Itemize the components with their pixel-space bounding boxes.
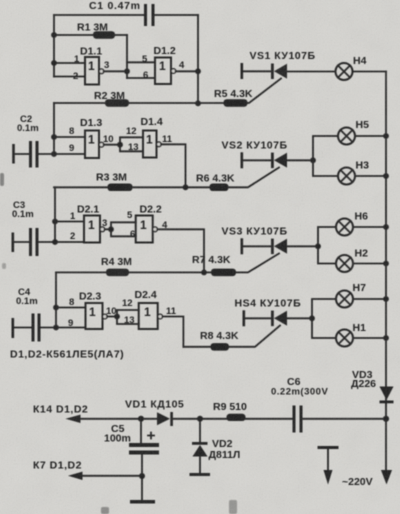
wire pin 8	[51, 126, 85, 140]
label ~220V	[342, 476, 373, 488]
node row2 output junction	[183, 184, 189, 190]
wire H3 to rail	[355, 173, 389, 179]
wire row4 input vertical	[55, 272, 57, 327]
wire pin 11 output	[161, 134, 186, 187]
wire lamp rail	[385, 72, 387, 472]
gate D2.2	[136, 204, 162, 243]
mains terminal arrow	[318, 446, 339, 485]
resistor R2	[54, 90, 224, 107]
diode VD3	[351, 369, 394, 403]
resistor R8	[200, 330, 239, 351]
chip type label	[10, 349, 124, 361]
wire pins 5,6 fork	[111, 210, 136, 240]
wire H7 to rail	[353, 296, 389, 302]
wire to R8	[183, 346, 211, 348]
wire pin 10 output	[106, 306, 120, 319]
lamp H4	[336, 55, 367, 80]
resistor R3	[54, 172, 210, 192]
resistor R9	[213, 401, 247, 421]
node VD2 junction	[197, 416, 203, 422]
wire R5 to VS1 gate	[247, 79, 281, 104]
wire R1 to gate output	[126, 35, 128, 78]
thyristor VS4	[235, 298, 302, 327]
wire C2 to pin 9	[39, 143, 86, 157]
gate D1.2	[154, 45, 176, 84]
wire pin 2	[54, 71, 85, 82]
wire pin 4 output	[176, 60, 201, 74]
wire C3 to pin 2	[39, 231, 85, 245]
node R1 input junction	[51, 32, 57, 38]
scan smudge marks	[0, 173, 237, 514]
wire pin 11 output	[162, 306, 183, 347]
wire C4 to pin 9	[41, 318, 86, 330]
wire R7 to VS3 gate	[236, 254, 279, 273]
wire pin 10 output	[103, 134, 123, 148]
wire VS1 to H4	[287, 71, 336, 73]
lamp H7	[336, 282, 366, 308]
wire H1 to rail	[353, 335, 389, 341]
wire lamp fork H7/H1	[312, 299, 336, 338]
lamp H5	[338, 119, 369, 145]
gate D2.4	[135, 289, 163, 329]
wire C6 to rail	[303, 418, 387, 420]
diode VD1	[125, 399, 184, 427]
wire R8 to VS4 gate	[229, 326, 280, 347]
node row3 output junction	[201, 270, 207, 276]
node C5/K7 junction	[139, 473, 145, 479]
thyristor VS2	[222, 140, 288, 169]
gate D2.3	[79, 291, 107, 330]
wire R6 to VS2 gate	[229, 168, 279, 188]
wire row1 input vertical	[53, 15, 55, 77]
node B to R5 junction	[195, 100, 201, 106]
capacitor C5	[104, 419, 159, 476]
wire VD1 to C6	[173, 418, 293, 420]
gate D1.4	[141, 116, 163, 158]
lamp H6	[336, 211, 368, 236]
gate D1.1	[80, 46, 104, 85]
resistor R7	[192, 254, 236, 276]
wire H2 to rail	[353, 261, 389, 267]
rail arrow to mains	[381, 470, 392, 485]
thyristor VS3	[222, 226, 288, 255]
gate D1.3	[80, 117, 104, 158]
wire lamp fork H6/H2	[318, 227, 336, 264]
wire top feedback net C1	[54, 14, 198, 16]
gate D2.1	[77, 204, 105, 243]
resistor R1	[54, 22, 127, 39]
capacitor C3	[12, 200, 39, 256]
wire row3 input vertical	[54, 187, 56, 242]
capacitor C4	[12, 287, 41, 342]
zener VD2	[190, 419, 241, 476]
wire lamp fork H5/H3	[313, 136, 338, 176]
wire row2 input vertical	[53, 103, 55, 154]
wire VS2 to lamp fork	[287, 157, 316, 163]
wire H6 to rail	[353, 224, 389, 230]
wire K7 output arrow	[33, 460, 142, 481]
capacitor C1	[89, 0, 155, 26]
wire pin 1	[51, 54, 85, 66]
wire pins 12,13 fork	[120, 126, 143, 153]
node rail / C6 junction	[383, 416, 389, 422]
wire pin 3 output	[104, 60, 130, 74]
lamp H2	[336, 248, 368, 273]
resistor R5	[214, 88, 253, 107]
wire pin 3 output	[102, 218, 114, 232]
wire H5 to rail	[355, 133, 389, 139]
wire H4 to rail	[353, 71, 387, 73]
wire pin 1	[52, 211, 84, 224]
node C5 junction	[138, 416, 144, 422]
wire pins 5,6 fork	[127, 54, 155, 81]
wire node B vertical	[197, 15, 199, 103]
resistor R4	[56, 256, 211, 276]
wire VS3 to lamp fork	[287, 243, 321, 249]
lamp H3	[338, 160, 369, 185]
wire pin 4 output	[157, 220, 204, 272]
lamp H1	[336, 322, 366, 347]
resistor R6	[196, 173, 235, 192]
wire pin 8	[53, 297, 85, 310]
thyristor VS1	[241, 50, 316, 79]
wire VS4 to lamp fork	[287, 315, 315, 321]
capacitor C2	[12, 114, 38, 168]
wire K14 output arrow	[33, 404, 157, 424]
capacitor C6	[271, 376, 328, 433]
wire pins 12,13 fork	[117, 298, 139, 326]
ground	[130, 476, 155, 504]
